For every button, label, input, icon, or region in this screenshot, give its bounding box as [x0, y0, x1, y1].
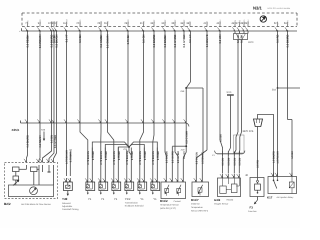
svg-text:INJ: INJ — [100, 21, 103, 24]
svg-text:0.5 GY/RD: 0.5 GY/RD — [171, 151, 174, 163]
svg-text:Y1: Y1 — [140, 198, 144, 201]
svg-text:K17: K17 — [267, 195, 273, 199]
svg-text:0.5 BN/BK: 0.5 BN/BK — [164, 34, 167, 47]
svg-text:W10: W10 — [227, 91, 232, 94]
svg-text:2.5 RD: 2.5 RD — [257, 160, 260, 168]
svg-text:CAM: CAM — [65, 19, 68, 24]
svg-text:IAT: IAT — [189, 20, 192, 24]
svg-text:0.5 GY: 0.5 GY — [183, 151, 186, 159]
svg-text:SHD: SHD — [79, 19, 82, 24]
wire jog to relay right pin — [288, 119, 293, 121]
svg-text:0.75 BK/GN: 0.75 BK/GN — [100, 151, 103, 165]
svg-text:HFM-SFI control module: HFM-SFI control module — [268, 7, 291, 10]
control module N3/1 dashed inner bottom edge — [22, 26, 297, 28]
svg-text:0.5 GN: 0.5 GN — [143, 34, 146, 43]
svg-text:N3/1: N3/1 — [253, 6, 263, 11]
svg-text:TMP: TMP — [164, 19, 167, 24]
svg-text:Air Injection Relay: Air Injection Relay — [277, 196, 295, 199]
splice Z18 — [277, 87, 279, 89]
svg-text:B2/2: B2/2 — [4, 202, 11, 206]
svg-text:0.75 BK: 0.75 BK — [118, 151, 121, 160]
svg-text:0.5 GN/BK: 0.5 GN/BK — [100, 34, 103, 47]
svg-text:TMP: TMP — [153, 19, 156, 24]
svg-text:O2H: O2H — [247, 19, 250, 24]
control module N3/1 dashed right edge — [296, 13, 298, 27]
splice Z28 fan-out — [127, 123, 129, 145]
svg-text:Solenoid: Solenoid — [62, 202, 71, 205]
injector feed bends — [80, 123, 88, 158]
svg-text:0.75 BK/GN: 0.75 BK/GN — [139, 151, 142, 165]
connector symbol in N3/1 — [260, 16, 266, 22]
svg-text:0.5 GY/RD: 0.5 GY/RD — [174, 34, 177, 47]
svg-text:RLY: RLY — [286, 20, 289, 25]
svg-text:Oxygen Sensor: Oxygen Sensor — [214, 202, 229, 205]
svg-text:GND: GND — [39, 19, 42, 24]
svg-text:0.5 GY/BK: 0.5 GY/BK — [177, 151, 180, 163]
svg-text:2870: 2870 — [248, 41, 254, 44]
svg-text:Temperature: Temperature — [191, 206, 204, 209]
svg-text:Y1: Y1 — [153, 198, 157, 201]
splice Z19 — [185, 145, 187, 147]
svg-text:0.5 BN/YE: 0.5 BN/YE — [201, 152, 204, 164]
svg-text:0.75 BK/WH: 0.75 BK/WH — [66, 150, 69, 164]
svg-text:Camshaft Timing: Camshaft Timing — [62, 208, 79, 211]
svg-text:0.5 GN: 0.5 GN — [227, 158, 230, 166]
O2 wire bends — [220, 140, 223, 152]
svg-text:0.5 BK/RD: 0.5 BK/RD — [287, 34, 290, 47]
svg-text:O2H: O2H — [219, 19, 222, 24]
svg-text:Y1: Y1 — [101, 198, 105, 201]
svg-text:B11/7: B11/7 — [191, 198, 199, 202]
svg-text:0.75 BK: 0.75 BK — [144, 151, 147, 160]
svg-text:1.5 BK/RD: 1.5 BK/RD — [273, 151, 276, 163]
svg-text:(HFM-SFI) (ETC): (HFM-SFI) (ETC) — [160, 207, 176, 210]
svg-text:0.75 BK: 0.75 BK — [157, 151, 160, 160]
svg-text:0.5 BK/GN: 0.5 BK/GN — [56, 34, 59, 47]
svg-text:0.5 GY/BK: 0.5 GY/BK — [183, 34, 186, 47]
svg-text:0.5 WH: 0.5 WH — [219, 34, 222, 43]
svg-text:Intake Air: Intake Air — [191, 203, 200, 206]
wire from X26 down to fuse F3 — [257, 127, 259, 181]
svg-text:0.5 GY/WH: 0.5 GY/WH — [185, 131, 188, 144]
svg-text:0.75 BK: 0.75 BK — [105, 151, 108, 160]
coolant temperature sensor B11/2 — [165, 123, 166, 178]
wire from X26 to relay — [258, 115, 274, 177]
connector X26 — [254, 119, 263, 127]
svg-text:0.5 RD/BK: 0.5 RD/BK — [27, 34, 30, 47]
svg-text:0.75 BK/GN: 0.75 BK/GN — [113, 151, 116, 165]
svg-text:INJ: INJ — [55, 21, 58, 24]
svg-text:0.75 BK/YE: 0.75 BK/YE — [69, 149, 72, 163]
svg-text:0.75 BK/GN: 0.75 BK/GN — [87, 151, 90, 165]
vertical wires from N3/1 — [27, 31, 29, 123]
svg-text:SIG: SIG — [26, 20, 29, 24]
svg-text:Y49: Y49 — [62, 197, 68, 201]
svg-text:0.5 BN/RD: 0.5 BN/RD — [153, 34, 156, 47]
svg-text:0.75 BK: 0.75 BK — [127, 34, 130, 44]
svg-text:1.5 RD/WH: 1.5 RD/WH — [277, 151, 280, 164]
svg-text:0.75 BK: 0.75 BK — [92, 151, 95, 160]
svg-text:0.75 BK/GN: 0.75 BK/GN — [152, 151, 155, 165]
camshaft solenoid Y49 — [66, 123, 68, 176]
svg-text:0.5 GN/WH: 0.5 GN/WH — [107, 34, 110, 48]
svg-text:Y3/2: Y3/2 — [125, 198, 131, 201]
control module N3/1 solid pin rail — [22, 30, 298, 32]
air injection relay K17 — [271, 173, 273, 176]
svg-text:Adjustable: Adjustable — [62, 205, 73, 208]
svg-text:0.5 GN: 0.5 GN — [233, 158, 236, 166]
svg-text:O2S: O2S — [234, 19, 237, 24]
svg-text:0.5 GY/WH: 0.5 GY/WH — [54, 135, 57, 148]
svg-text:TMP: TMP — [183, 19, 186, 24]
svg-text:Heated: Heated — [227, 199, 235, 202]
svg-text:B11/2: B11/2 — [160, 199, 168, 203]
svg-text:O2G: O2G — [243, 19, 246, 24]
intake air temperature sensor B11/7 — [194, 178, 196, 181]
svg-text:Temperature Sensor: Temperature Sensor — [160, 204, 179, 207]
svg-text:Fuse box: Fuse box — [248, 210, 258, 213]
svg-text:0.5 GY/GN: 0.5 GY/GN — [195, 152, 198, 164]
svg-text:0.5 BN: 0.5 BN — [79, 34, 82, 42]
svg-text:0.5 GN: 0.5 GN — [222, 158, 225, 166]
svg-text:0.5 VT: 0.5 VT — [66, 34, 69, 42]
svg-text:TMP: TMP — [174, 19, 177, 24]
svg-text:0.75 BK/GN: 0.75 BK/GN — [126, 151, 129, 165]
air flow sensor B2/2 — [5, 163, 58, 199]
svg-text:0.5 BK/RD: 0.5 BK/RD — [27, 135, 30, 148]
shield around O2 signal pair — [234, 135, 245, 153]
svg-text:Sensor (HFM-SFI): Sensor (HFM-SFI) — [191, 209, 208, 212]
svg-text:0.5 RD/WH: 0.5 RD/WH — [39, 34, 42, 48]
wires into B2/2 — [27, 123, 28, 163]
svg-text:IAT: IAT — [206, 20, 209, 24]
fuel injectors — [87, 158, 89, 178]
control module N3/1 dashed left edge — [21, 13, 23, 27]
pin arrows at N3/1 rail — [25, 27, 27, 30]
svg-text:0.5 BN/BK: 0.5 BN/BK — [165, 151, 168, 163]
svg-text:0.5 RD: 0.5 RD — [277, 34, 280, 42]
connector block 2870 — [234, 31, 236, 34]
svg-text:GND: GND — [127, 19, 130, 24]
svg-text:0.5 BN/YE: 0.5 BN/YE — [206, 34, 209, 47]
svg-text:O2S: O2S — [238, 19, 241, 24]
control module N3/1 dashed outline top edge — [22, 12, 297, 14]
svg-text:X35/1: X35/1 — [12, 128, 20, 132]
oxygen sensor G3/2 — [217, 153, 243, 155]
svg-text:3670 X26: 3670 X26 — [243, 130, 254, 133]
svg-text:Transmission: Transmission — [125, 202, 139, 205]
svg-text:1.5 BK: 1.5 BK — [291, 151, 294, 159]
svg-text:0.5 RD/GY: 0.5 RD/GY — [39, 135, 42, 148]
svg-text:0.5 BK: 0.5 BK — [219, 134, 222, 142]
svg-text:Y1: Y1 — [114, 198, 118, 201]
svg-text:0.75 BK: 0.75 BK — [131, 151, 134, 160]
svg-text:G3/2: G3/2 — [214, 198, 221, 202]
svg-text:Z18: Z18 — [272, 89, 277, 92]
svg-text:0.5 GN: 0.5 GN — [238, 158, 241, 166]
svg-text:Y1: Y1 — [88, 198, 92, 201]
splice Z6 and branch wires — [189, 31, 191, 82]
svg-text:0.5 BK: 0.5 BK — [241, 34, 244, 42]
connector X35 rail — [21, 122, 187, 124]
svg-text:Kickdown Solenoid: Kickdown Solenoid — [125, 205, 144, 208]
svg-text:INJ: INJ — [106, 21, 109, 24]
svg-text:INJ: INJ — [142, 21, 145, 24]
svg-text:F3: F3 — [250, 205, 254, 209]
svg-text:Coolant: Coolant — [174, 200, 182, 203]
svg-text:Hot Film Mass Air Flow Sensor: Hot Film Mass Air Flow Sensor — [21, 203, 51, 206]
